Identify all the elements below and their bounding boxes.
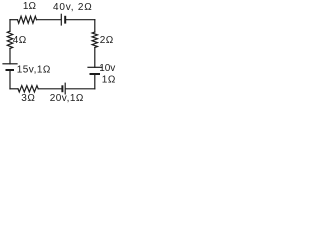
battery B4 15v long plate (3, 63, 17, 65)
battery B1 40v short plate (64, 17, 66, 23)
wire right middle segment (94, 48, 96, 68)
wire top-right segment (66, 19, 95, 21)
resistor R4 4ohm (left) (7, 31, 12, 48)
battery B2 10v long plate (88, 66, 102, 68)
svg-text:4Ω: 4Ω (13, 35, 27, 46)
battery B2 10v short plate (91, 73, 100, 75)
wire top-middle segment (37, 19, 62, 21)
svg-text:1Ω: 1Ω (102, 75, 116, 86)
svg-text:10v: 10v (99, 63, 115, 74)
resistor R2 2ohm (right) (92, 32, 97, 48)
wire left upper segment (9, 20, 11, 32)
svg-text:2Ω: 2Ω (100, 35, 114, 46)
battery B4 15v short plate (7, 69, 14, 71)
wire right lower segment (94, 74, 96, 89)
battery B3 20v short plate (61, 86, 63, 91)
resistor R3 3ohm (bottom) (18, 86, 38, 92)
wire left middle segment (9, 49, 11, 64)
wire top-left segment (10, 19, 18, 21)
wire bottom-right segment (66, 88, 95, 90)
resistor R1 1ohm (top) (18, 16, 37, 23)
wire right upper segment (94, 20, 96, 32)
wire left lower segment (9, 70, 11, 89)
svg-text:40v, 2Ω: 40v, 2Ω (53, 2, 93, 13)
battery B1 40v long plate (60, 14, 62, 25)
wire bottom-middle segment (38, 88, 62, 90)
svg-text:20v,1Ω: 20v,1Ω (50, 93, 84, 104)
svg-text:3Ω: 3Ω (21, 93, 35, 104)
svg-text:15v,1Ω: 15v,1Ω (17, 64, 51, 75)
wire bottom-left segment (10, 88, 18, 90)
svg-text:1Ω: 1Ω (23, 1, 37, 12)
battery B3 20v long plate (64, 83, 66, 94)
